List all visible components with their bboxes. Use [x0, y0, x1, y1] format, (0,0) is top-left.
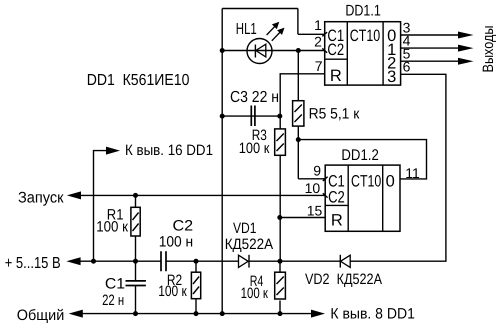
svg-text:100 к: 100 к [158, 283, 187, 300]
svg-text:КД522А: КД522А [225, 236, 274, 253]
svg-text:HL1: HL1 [236, 21, 257, 38]
svg-text:К выв. 8 DD1: К выв. 8 DD1 [330, 306, 415, 323]
svg-text:CT10: CT10 [351, 173, 381, 191]
svg-text:C1: C1 [105, 276, 125, 293]
svg-text:DD1.1: DD1.1 [345, 3, 380, 20]
svg-text:9: 9 [313, 163, 321, 179]
svg-text:DD1 К561ИЕ10: DD1 К561ИЕ10 [87, 72, 190, 89]
svg-text:22 н: 22 н [102, 292, 124, 309]
svg-text:R: R [330, 67, 342, 85]
svg-text:+ 5...15 В: + 5...15 В [5, 255, 61, 272]
svg-text:CT10: CT10 [350, 27, 380, 45]
svg-text:10: 10 [305, 180, 321, 196]
svg-text:C2: C2 [328, 189, 345, 207]
svg-text:VD1: VD1 [233, 220, 257, 237]
svg-text:VD2 КД522А: VD2 КД522А [305, 271, 382, 288]
svg-text:2: 2 [314, 33, 322, 49]
svg-text:11: 11 [405, 165, 420, 181]
svg-text:DD1.2: DD1.2 [341, 147, 378, 164]
svg-text:100 к: 100 к [239, 140, 270, 157]
svg-text:Запуск: Запуск [18, 190, 64, 207]
svg-text:7: 7 [315, 58, 323, 74]
svg-text:C2: C2 [173, 218, 194, 235]
svg-text:15: 15 [307, 203, 323, 219]
svg-text:C3 22 н: C3 22 н [230, 89, 279, 106]
svg-text:100 к: 100 к [96, 219, 128, 236]
svg-text:3: 3 [387, 68, 396, 86]
svg-text:100 к: 100 к [241, 285, 269, 302]
svg-text:1: 1 [314, 17, 322, 33]
svg-text:6: 6 [403, 59, 411, 75]
svg-text:Общий: Общий [17, 307, 65, 324]
svg-text:R: R [331, 212, 343, 230]
svg-text:0: 0 [386, 173, 395, 191]
svg-text:Выходы: Выходы [480, 26, 497, 73]
svg-text:К выв. 16 DD1: К выв. 16 DD1 [125, 142, 213, 159]
svg-text:100 н: 100 н [159, 234, 194, 251]
svg-text:C2: C2 [327, 41, 344, 59]
svg-text:R5 5,1 к: R5 5,1 к [309, 106, 360, 123]
